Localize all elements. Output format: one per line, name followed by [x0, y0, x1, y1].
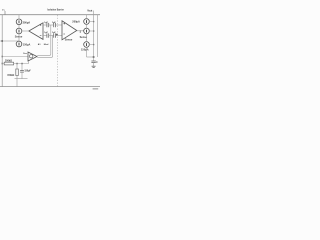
wire riser B from row B down to oscillator — [37, 36, 52, 58]
wire U2 to I5 — [77, 30, 84, 32]
wire rail to bottom border — [16, 79, 18, 87]
wire I6 to VOUT line horizontal — [87, 56, 94, 58]
wire R1 to U3 base bottom — [14, 61, 29, 64]
wire I6 bottom down — [86, 47, 88, 57]
wire C4 to U2 row B — [56, 35, 63, 37]
capacitor C2 1pF row A right — [53, 23, 55, 27]
capacitor C6 sample hold — [91, 60, 95, 62]
svg-text:Osc: Osc — [23, 53, 28, 55]
resistor R1 — [4, 62, 13, 65]
current source I5 — [84, 28, 90, 34]
capacitor C1 1pF row A left — [46, 23, 48, 27]
current source I4 — [84, 19, 90, 25]
label caption bottom right — [93, 88, 99, 90]
wire oscillator input rail y56.5 — [2, 56, 28, 58]
oscillator buffer U3 — [28, 52, 37, 61]
op-amp U1 left modulator (points left) — [29, 23, 43, 40]
wire I1 to top border — [18, 15, 20, 20]
left border line — [1, 15, 3, 87]
svg-text:Vout: Vout — [87, 9, 92, 12]
capacitor C5 — [20, 70, 24, 72]
svg-text:200kΩ: 200kΩ — [5, 61, 12, 63]
wire tap to R2 — [16, 64, 18, 70]
svg-text:Isolation Barrier: Isolation Barrier — [47, 7, 64, 11]
wire C6 to ground — [93, 63, 95, 66]
svg-text:Mod: Mod — [44, 44, 49, 46]
wire C2 to U2 row A — [56, 24, 63, 26]
isolation barrier dashed line — [57, 15, 59, 86]
wire ground rail — [15, 78, 28, 80]
junction on left border y63.5 — [2, 63, 4, 65]
svg-text:A1: A1 — [38, 43, 42, 46]
wire I4 to I5 — [86, 24, 88, 28]
current source I1 — [16, 19, 22, 25]
wire riser A from row A down to oscillator — [37, 25, 51, 55]
wire input pin left at y41 — [0, 40, 19, 42]
wire VOUT vertical line — [93, 11, 95, 61]
junction mark row B at barrier — [56, 34, 58, 36]
svg-text:150kΩ: 150kΩ — [7, 75, 14, 77]
op-amp U2 demodulator (points right) — [62, 21, 77, 40]
svg-text:1pF: 1pF — [44, 22, 48, 24]
junction input pin on border — [1, 40, 3, 42]
svg-text:Sense: Sense — [65, 38, 73, 42]
junction dot C5 tap — [21, 63, 23, 65]
svg-text:1pF: 1pF — [44, 32, 48, 34]
wire I4 to VOUT line — [89, 21, 94, 23]
svg-text:150pF: 150pF — [24, 71, 31, 73]
right inner vertical net — [97, 15, 99, 57]
wire I5 to VOUT line — [89, 30, 94, 32]
wire I6 to VOUT line — [89, 44, 94, 46]
capacitor C4 1pF row B right — [53, 33, 55, 37]
capacitor C3 1pF row B left — [46, 33, 48, 37]
wire C1 to C2 row A — [49, 24, 54, 26]
wire border to R1 — [2, 63, 4, 65]
polarity marks U2 — [63, 23, 65, 25]
wire U1 base stub row A — [43, 24, 47, 26]
label C6 value — [96, 61, 98, 63]
current source I6 — [84, 42, 90, 48]
svg-text:200µA: 200µA — [23, 21, 31, 25]
svg-text:150µA: 150µA — [23, 43, 31, 47]
wire R2 to rail — [16, 76, 18, 79]
wire I2 to U1 apex — [22, 30, 29, 32]
junction dot VOUT line — [93, 56, 95, 58]
wire I5 to I6 — [86, 34, 88, 42]
wire U1 base stub row B — [43, 35, 47, 37]
svg-text:200µA: 200µA — [72, 20, 80, 24]
polarity marks U1 — [40, 24, 42, 26]
wire C3 to C4 row B — [49, 35, 54, 37]
junction dot R2 tap — [16, 63, 18, 65]
current source I3 — [16, 41, 22, 47]
svg-text:150µA: 150µA — [81, 48, 89, 52]
pin stub top-left — [4, 11, 6, 15]
oscillator circle inside U3 — [30, 55, 33, 58]
wire I1 to I2 — [18, 24, 20, 28]
resistor R2 — [16, 69, 18, 76]
bottom border line — [0, 86, 100, 88]
ground symbol right — [92, 65, 96, 67]
junction tick on U2 output — [79, 30, 81, 33]
top border line — [0, 14, 100, 16]
junction on left border y56.5 — [2, 56, 4, 58]
current source I2 — [16, 28, 22, 34]
junction dots VOUT line — [93, 21, 94, 22]
wire I2 to I3 — [18, 34, 20, 42]
wire I4 to top border — [86, 15, 88, 19]
wire tap to C5 — [21, 64, 23, 71]
wire C5 to rail — [21, 72, 23, 79]
